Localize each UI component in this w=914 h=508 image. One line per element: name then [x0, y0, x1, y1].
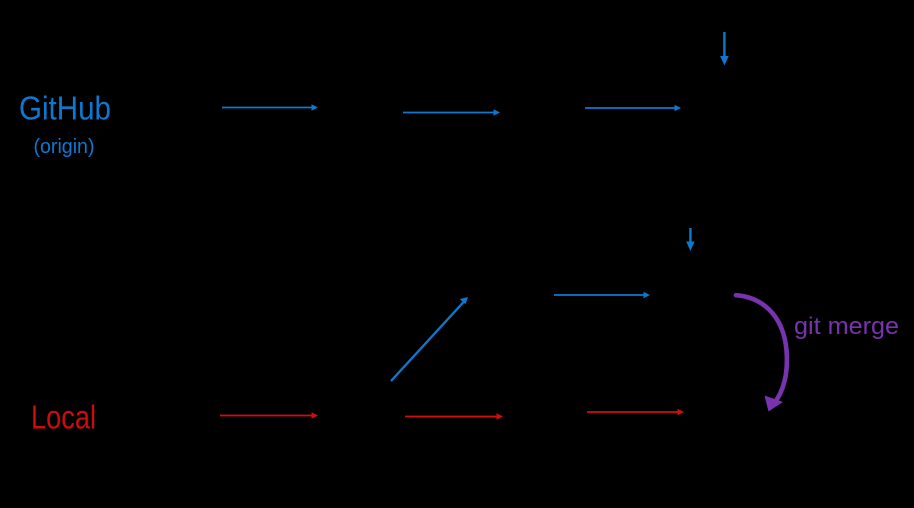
svg-text:Local: Local [31, 399, 96, 436]
wire red arrow R2 (Local row, commit 2 to 3) [405, 413, 503, 419]
wire blue arrow A3 (GitHub row, commit 3 to 4) [585, 105, 681, 111]
svg-text:GitHub: GitHub [19, 90, 111, 127]
wire red arrow R3 (Local row, commit 3 to 4) [587, 409, 684, 415]
wire blue arrow M1 (middle fetched row) [554, 292, 650, 298]
svg-text:(origin): (origin) [34, 136, 95, 158]
wire blue down arrow D1 (into GitHub commit 4) [720, 32, 729, 66]
wire blue diagonal arrow (branch up from local) [391, 297, 468, 381]
wire blue arrow A2 (GitHub row, commit 2 to 3) [403, 109, 500, 115]
wire blue down arrow D2 (into remote-tracking commit) [686, 228, 694, 251]
svg-text:git merge: git merge [794, 313, 899, 340]
wire purple git merge arc [736, 295, 787, 411]
wire blue arrow A1 (GitHub row, commit 1 to 2) [222, 104, 318, 110]
wire red arrow R1 (Local row, commit 1 to 2) [220, 412, 318, 418]
